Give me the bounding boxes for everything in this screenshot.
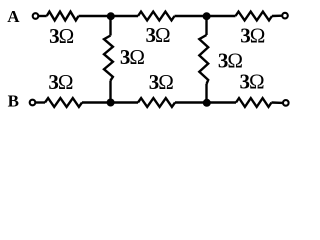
wire RV2 down to J4	[205, 84, 207, 103]
svg-text:3Ω: 3Ω	[49, 24, 74, 48]
junction J2	[203, 12, 211, 20]
wire J1 down to RV1	[109, 16, 111, 36]
resistor R2 (top-middle, 3 ohm)	[138, 12, 175, 21]
wire R4 to junction J3	[82, 101, 138, 103]
wire A terminal to R1	[39, 15, 47, 17]
terminal bottom-right (open circle)	[283, 100, 289, 106]
resistor R1 (top-left, 3 ohm)	[47, 12, 79, 21]
wire J2 down to RV2	[205, 16, 207, 35]
wire R6 to bottom-right terminal	[272, 101, 284, 104]
wire R3 to top-right terminal	[272, 14, 282, 17]
wire B terminal to R4	[35, 101, 45, 103]
wire R5 to junction J4	[175, 101, 236, 103]
wire R1 to junction J1	[79, 15, 139, 17]
resistor RV1 (left vertical, 3 ohm)	[104, 36, 113, 81]
svg-text:3Ω: 3Ω	[149, 70, 174, 94]
terminal top-right (open circle)	[282, 13, 288, 19]
svg-text:B: B	[8, 92, 19, 111]
resistor R4 (bottom-left, 3 ohm)	[45, 98, 82, 107]
junction J1	[107, 12, 115, 20]
svg-text:3Ω: 3Ω	[240, 24, 265, 48]
svg-text:3Ω: 3Ω	[146, 23, 171, 47]
wire R2 to junction J2	[175, 15, 236, 17]
resistor R5 (bottom-middle, 3 ohm)	[138, 98, 175, 107]
terminal B (open circle)	[30, 100, 36, 106]
junction J4	[203, 99, 211, 107]
svg-text:A: A	[7, 7, 20, 26]
wire RV1 down to J3	[109, 81, 111, 103]
resistor R3 (top-right, 3 ohm)	[236, 12, 273, 21]
resistor RV2 (right vertical, 3 ohm)	[199, 35, 208, 84]
resistor R6 (bottom-right, 3 ohm)	[236, 98, 272, 107]
svg-text:3Ω: 3Ω	[240, 70, 265, 94]
svg-text:3Ω: 3Ω	[120, 45, 145, 69]
terminal A (open circle)	[33, 13, 39, 19]
svg-text:3Ω: 3Ω	[48, 70, 73, 94]
junction J3	[107, 99, 115, 107]
